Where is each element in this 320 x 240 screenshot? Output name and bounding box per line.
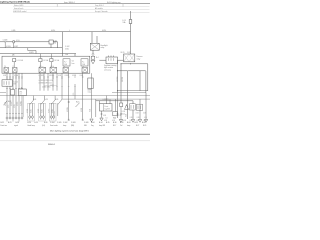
- lamp unit 1 left rail: [29, 103, 31, 119]
- lamp cell 6: [82, 68, 88, 73]
- lamp unit 1 box: [28, 103, 35, 121]
- svg-text:C-109: C-109: [84, 122, 88, 124]
- left col stub 2: [12, 119, 14, 122]
- svg-text:0.5RY: 0.5RY: [14, 46, 18, 48]
- fog switch box: [100, 104, 113, 111]
- svg-text:0.5RW: 0.5RW: [29, 52, 34, 54]
- wire col x10: [9, 73, 11, 80]
- bus3 jog v: [35, 51, 37, 54]
- wire y70.8 left ext: [118, 70, 128, 72]
- svg-text:C-104: C-104: [50, 122, 54, 124]
- lamp cell 1: [4, 68, 9, 73]
- svg-text:B-24: B-24: [122, 113, 125, 115]
- fuse block C: [81, 59, 88, 66]
- svg-text:0.85RW: 0.85RW: [117, 76, 119, 82]
- lamp unit 3 left rail: [50, 103, 52, 119]
- fuse C symbol mid2: [50, 59, 53, 62]
- svg-text:E-13: E-13: [76, 101, 79, 103]
- long bus y90.7: [118, 90, 148, 92]
- svg-text:0.5W: 0.5W: [30, 109, 32, 113]
- svg-text:B-24: B-24: [127, 122, 130, 124]
- junction dot a: [117, 70, 118, 71]
- diag leader mid: [76, 103, 80, 107]
- svg-text:86 85: 86 85: [121, 52, 125, 54]
- fuse F1: [129, 20, 132, 24]
- ground G1: [91, 60, 95, 63]
- svg-text:DRL: DRL: [19, 91, 22, 93]
- wire x121 lower: [120, 107, 122, 120]
- junction dot d: [130, 63, 131, 64]
- relay box small: [19, 89, 27, 96]
- mid band verticals x62: [61, 73, 63, 99]
- fog switch divider: [103, 104, 105, 111]
- svg-text:E-24: E-24: [28, 122, 31, 124]
- header tick 1: [56, 4, 58, 7]
- wire x91.5: [91, 73, 93, 118]
- lamp cell 5: [63, 68, 69, 73]
- fuse block B: [63, 59, 70, 66]
- svg-text:0.5B: 0.5B: [118, 115, 121, 117]
- relay U2 inner: [124, 54, 135, 62]
- small box x10: [11, 90, 15, 96]
- wire relay coil drop: [92, 50, 94, 53]
- svg-text:0.85RG: 0.85RG: [49, 75, 55, 77]
- svg-text:fog SW: fog SW: [105, 108, 111, 110]
- footer rule light: [0, 140, 150, 142]
- right comp box3: [137, 104, 143, 110]
- wire drop into fog box b: [109, 99, 111, 104]
- svg-text:F-1: F-1: [82, 62, 85, 64]
- wire bus3: [0, 53, 76, 55]
- connector ticks mid y86.5: [43, 86, 76, 88]
- wire relay drop 2: [96, 36, 98, 43]
- svg-text:C-103: C-103: [71, 122, 75, 124]
- connector ticks row1b: [6, 77, 63, 79]
- lamp unit 4 leader: [58, 99, 62, 104]
- bus3 jog h: [28, 50, 36, 52]
- wire col x22: [21, 73, 23, 117]
- svg-text:0.5W: 0.5W: [41, 109, 43, 113]
- svg-text:lamp: lamp: [63, 125, 66, 127]
- right comp box3 inner: [138, 106, 141, 110]
- wire col x16: [15, 73, 17, 117]
- combination switch box: [2, 80, 13, 86]
- svg-text:B-28: B-28: [16, 122, 19, 124]
- svg-text:unit assy: unit assy: [104, 68, 111, 71]
- svg-text:J/B: J/B: [12, 55, 14, 57]
- wire loop top: [128, 71, 146, 119]
- left col stub 1: [6, 119, 8, 122]
- right mini labels: [104, 120, 146, 122]
- junction dot c: [120, 63, 121, 64]
- svg-text:4JA1/4JH1 model: 4JA1/4JH1 model: [13, 10, 27, 13]
- svg-text:0.85RW 0.85RG 0.5R: 0.85RW 0.85RG 0.5R: [39, 80, 54, 82]
- long bus y99.1: [62, 98, 150, 100]
- ground G6: [138, 120, 141, 123]
- mid band hline: [44, 84, 57, 86]
- svg-text:0.5B: 0.5B: [122, 111, 125, 113]
- wire col x10 lower: [9, 86, 11, 117]
- svg-text:0.5B: 0.5B: [130, 120, 133, 122]
- svg-text:E-24: E-24: [33, 99, 36, 101]
- wire col x19: [18, 73, 20, 117]
- wire drop into fog box a: [106, 96, 108, 104]
- svg-text:B-14: B-14: [99, 122, 102, 124]
- lamp unit 1 leader: [30, 96, 34, 105]
- svg-text:F-7: F-7: [64, 62, 67, 64]
- wire tail lamp feed: [0, 41, 58, 43]
- svg-text:B-25: B-25: [135, 122, 138, 124]
- lamp unit 2 box: [39, 103, 46, 121]
- wire labels above ticks: [3, 75, 83, 77]
- svg-text:E-26: E-26: [55, 99, 58, 101]
- header row line 2: [13, 9, 150, 11]
- svg-text:Notes: 6VE1: Notes: 6VE1: [14, 4, 24, 7]
- bottom rule: [0, 133, 150, 135]
- svg-text:B-27: B-27: [136, 125, 139, 127]
- lamp cell 6 X: [82, 68, 88, 73]
- svg-text:0.3B: 0.3B: [144, 117, 147, 119]
- svg-text:0.5B: 0.5B: [113, 118, 116, 120]
- wire col x7: [6, 73, 8, 80]
- svg-text:B-15: B-15: [106, 122, 109, 124]
- svg-text:0.5RB: 0.5RB: [5, 102, 7, 106]
- combination switch inner: [4, 81, 9, 85]
- svg-text:B-17: B-17: [113, 125, 116, 127]
- svg-text:relay: relay: [137, 57, 141, 60]
- svg-text:0.5B: 0.5B: [88, 89, 91, 91]
- fuse A symbol: [13, 59, 16, 62]
- x68 end ticks: [68, 119, 70, 120]
- svg-text:C-102: C-102: [65, 46, 69, 48]
- svg-text:0.5B: 0.5B: [103, 115, 106, 117]
- svg-text:0.5RW: 0.5RW: [21, 101, 23, 106]
- wire fog feed: [99, 101, 101, 104]
- wire connector drop: [13, 43, 15, 48]
- relay U1 X: [90, 43, 99, 50]
- wire x68.7: [68, 73, 70, 120]
- long bus y95.6: [0, 95, 150, 97]
- svg-text:B-16: B-16: [113, 122, 116, 124]
- svg-text:0.5W: 0.5W: [52, 109, 54, 113]
- lamp unit 1 right rail: [31, 103, 33, 119]
- svg-text:F-15: F-15: [123, 20, 126, 22]
- svg-text:Main lighting system (schemati: Main lighting system (schematic dwg) 6VE…: [50, 130, 90, 133]
- mid band verticals x57: [56, 73, 58, 91]
- ground G5: [131, 120, 134, 123]
- lamp unit 1 bulb b: [31, 116, 33, 118]
- svg-text:Except Colorado: Except Colorado: [95, 10, 108, 13]
- ground G3: [90, 119, 93, 122]
- svg-text:0.5RG: 0.5RG: [6, 46, 11, 48]
- svg-text:0.5B: 0.5B: [137, 120, 140, 122]
- lamp unit 2 bulb b: [42, 116, 44, 118]
- lamp unit 2 leader: [41, 96, 45, 105]
- svg-text:relay: relay: [101, 46, 105, 49]
- svg-text:B-4: B-4: [96, 57, 99, 59]
- left col stub 3: [18, 119, 20, 122]
- svg-text:0.5W: 0.5W: [14, 104, 16, 108]
- left col lamp 2: [9, 117, 11, 119]
- lamp cell 5 X: [63, 68, 69, 73]
- lamp cell 2: [13, 68, 18, 73]
- svg-text:B-22: B-22: [1, 122, 4, 124]
- left col lamp 4: [15, 117, 17, 119]
- right comp triangle: [125, 105, 129, 110]
- right comp box2 inner: [131, 105, 134, 109]
- dimmer relay U2: [124, 54, 135, 62]
- wire x121: [120, 64, 122, 103]
- connector label row: [1, 122, 146, 124]
- lamp unit 2 bulb a: [40, 116, 42, 118]
- svg-text:B-23: B-23: [8, 122, 11, 124]
- wire col x13: [12, 73, 14, 117]
- svg-text:0.5RY: 0.5RY: [38, 109, 40, 113]
- svg-text:0.5RY: 0.5RY: [50, 85, 54, 87]
- svg-text:Fog: Fog: [91, 125, 94, 127]
- x68 connector tick: [68, 102, 70, 103]
- fog out ticks: [101, 113, 103, 114]
- lamp unit 3 bulb b: [53, 116, 55, 118]
- x117 ticks: [117, 113, 122, 114]
- header row line 3: [13, 12, 150, 14]
- right comp box2: [130, 104, 136, 110]
- svg-text:0.5B: 0.5B: [123, 120, 126, 122]
- svg-text:0.5RB: 0.5RB: [27, 109, 29, 113]
- connector ticks row3: [6, 113, 23, 115]
- svg-text:L: L: [69, 30, 70, 32]
- ground G2: [100, 118, 103, 121]
- header rule: [0, 3, 150, 5]
- svg-text:0.5RB: 0.5RB: [81, 108, 83, 112]
- wire x146 lower: [145, 93, 147, 119]
- svg-text:B-29: B-29: [143, 125, 146, 127]
- resistor R1 inner: [109, 58, 114, 61]
- lamp unit 3 right rail: [53, 103, 55, 119]
- mid band verticals x48: [47, 73, 49, 91]
- ground G7: [144, 120, 147, 123]
- svg-text:0.5B: 0.5B: [112, 120, 115, 122]
- svg-text:C-102: C-102: [63, 122, 67, 124]
- svg-text:30 87: 30 87: [127, 52, 131, 54]
- wire x140 lower: [139, 99, 141, 119]
- svg-text:0.3B: 0.3B: [137, 117, 140, 119]
- wire dim line: [99, 59, 124, 61]
- small box under fog: [113, 112, 118, 116]
- svg-text:0.5GB: 0.5GB: [54, 111, 56, 115]
- svg-text:E-23: E-23: [8, 101, 11, 103]
- resistor R1 pins: [109, 56, 114, 58]
- svg-text:E-25: E-25: [35, 122, 38, 124]
- box feed stub 2: [50, 54, 52, 59]
- wire into small box: [114, 99, 116, 111]
- svg-text:E-25: E-25: [45, 99, 48, 101]
- DRL unit box: [88, 78, 93, 89]
- svg-text:0.85L: 0.85L: [102, 30, 106, 32]
- svg-text:B-64: B-64: [91, 122, 94, 124]
- connector ticks row2: [6, 88, 23, 90]
- resistor R1: [106, 57, 118, 64]
- wire x95.8: [95, 99, 97, 117]
- x82 end ticks: [82, 119, 84, 120]
- lamp cell 3: [39, 67, 46, 72]
- lamp unit 2 right rail: [42, 103, 44, 119]
- wire battery feed: [130, 11, 132, 54]
- lamp unit 2 left rail: [40, 103, 42, 119]
- lamp unit 3 box: [49, 103, 56, 121]
- svg-text:B-19: B-19: [120, 122, 123, 124]
- svg-text:signal: signal: [14, 125, 19, 127]
- svg-text:B-26: B-26: [142, 122, 145, 124]
- svg-text:0.5B: 0.5B: [136, 113, 139, 115]
- svg-text:0.5B: 0.5B: [143, 113, 146, 115]
- svg-text:0.5RB: 0.5RB: [72, 75, 76, 77]
- svg-text:Dwg 36-6-1: Dwg 36-6-1: [95, 5, 104, 7]
- left diag leader: [4, 101, 8, 105]
- lamp cell 4 X: [50, 67, 57, 72]
- svg-text:Head lamp: Head lamp: [28, 125, 35, 127]
- header row line 1: [13, 6, 150, 8]
- svg-text:Item of truck: Item of truck: [14, 7, 23, 10]
- connector C-102 drop: [61, 32, 63, 57]
- svg-text:0.5GB: 0.5GB: [3, 40, 8, 42]
- box feed stub 1: [39, 54, 41, 59]
- wire x117.5: [117, 60, 119, 118]
- small box x121: [120, 103, 123, 107]
- ground G4: [119, 120, 122, 123]
- bus y100.8 corner: [132, 101, 134, 119]
- wire under relay2: [121, 63, 148, 65]
- wire switch drop: [50, 44, 52, 48]
- wire main bus: [0, 31, 131, 33]
- node circle on feed: [5, 41, 6, 42]
- long bus y92.7: [112, 92, 146, 94]
- svg-text:B-1: B-1: [106, 118, 108, 120]
- svg-text:0.5RW: 0.5RW: [67, 107, 69, 112]
- cell labels row: [4, 66, 84, 68]
- svg-text:Lighting System (6VE1 Mod): Lighting System (6VE1 Mod): [0, 1, 30, 4]
- junction block box: [2, 56, 90, 73]
- fuse A wire: [13, 62, 15, 68]
- wire x75: [74, 84, 76, 99]
- connector ticks row1: [6, 76, 83, 78]
- svg-text:0.85RB: 0.85RB: [122, 77, 124, 82]
- wire node drop: [4, 43, 6, 48]
- svg-text:36B-6-1: 36B-6-1: [48, 144, 56, 146]
- lamp cell 3 X: [39, 67, 46, 72]
- left col lamp 5: [18, 117, 20, 119]
- wire relay drop 1: [91, 32, 93, 44]
- svg-text:0.85L: 0.85L: [12, 30, 16, 32]
- svg-text:fuse: fuse: [72, 63, 75, 65]
- connector label row2: [1, 124, 147, 127]
- wire jog down: [57, 42, 59, 48]
- header tick 2: [122, 4, 124, 7]
- svg-text:(RH): (RH): [71, 125, 75, 127]
- fuse B wire mid1: [39, 62, 41, 68]
- mid band verticals x53: [52, 73, 54, 91]
- wire col x23.5: [23, 96, 25, 117]
- svg-text:0.5B: 0.5B: [80, 75, 83, 77]
- left col lamp 3: [12, 117, 14, 119]
- connector on feed: [13, 41, 15, 43]
- svg-text:0.5B: 0.5B: [144, 120, 147, 122]
- wire fog out: [101, 111, 103, 118]
- bus y100.8: [96, 100, 133, 102]
- bus3 stub: [27, 48, 29, 51]
- connector box B: [91, 56, 94, 59]
- wire x82.7: [82, 73, 84, 120]
- svg-text:0.5RB: 0.5RB: [14, 75, 18, 77]
- lamp unit 1 bulb a: [29, 116, 31, 118]
- wire col x7 lower: [6, 86, 8, 117]
- lamp unit 3 bulb a: [50, 116, 52, 118]
- lamp unit 3 leader: [51, 96, 55, 105]
- wire right drop 1: [147, 64, 149, 91]
- svg-text:0.85RB 0.5RY 0.5G: 0.85RB 0.5RY 0.5G: [39, 82, 53, 84]
- junction dot b: [117, 90, 118, 91]
- svg-text:All models: All models: [95, 7, 103, 10]
- svg-text:0.5B: 0.5B: [104, 120, 107, 122]
- svg-text:DRL: DRL: [84, 125, 87, 127]
- svg-text:lamp SW: lamp SW: [99, 125, 106, 127]
- svg-text:0.3B: 0.3B: [130, 117, 133, 119]
- left edge stub: [0, 92, 6, 94]
- svg-text:0.85RW: 0.85RW: [103, 99, 109, 101]
- svg-text:Comb: Comb: [14, 82, 18, 84]
- svg-text:C-105: C-105: [57, 122, 61, 124]
- lamp unit 4 rail: [57, 103, 59, 116]
- headlamp relay U1: [90, 43, 99, 50]
- fuse B symbol mid1: [39, 59, 42, 62]
- svg-text:E-26: E-26: [44, 122, 47, 124]
- mid band verticals x40: [39, 73, 41, 91]
- svg-text:0.5B: 0.5B: [126, 114, 128, 117]
- left col lamp 6: [21, 117, 23, 119]
- fuse C wire mid2: [50, 62, 52, 68]
- node circle B: [92, 53, 94, 55]
- wire bus2: [0, 47, 62, 49]
- wire x75 stub: [74, 54, 76, 57]
- left col lamp 1: [6, 117, 8, 119]
- wire x140 upper: [139, 71, 141, 91]
- lighting switch SW1: [49, 40, 53, 44]
- mid band verticals x44: [43, 73, 45, 91]
- svg-text:0.5RY: 0.5RY: [11, 102, 13, 106]
- lamp cell 1 X: [4, 68, 9, 73]
- svg-text:(LH): (LH): [42, 125, 45, 127]
- svg-text:0.5B: 0.5B: [90, 109, 92, 112]
- svg-text:0.85L: 0.85L: [65, 48, 69, 50]
- right mini labels b: [106, 117, 147, 119]
- svg-text:0.85L: 0.85L: [51, 30, 55, 32]
- lamp cell 2 X: [13, 68, 18, 73]
- svg-text:lamp: lamp: [127, 125, 130, 127]
- lamp cell 4: [50, 67, 57, 72]
- svg-text:0.85RW: 0.85RW: [39, 75, 45, 77]
